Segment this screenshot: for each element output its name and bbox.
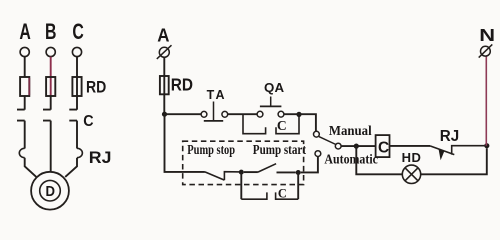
svg-text:A: A bbox=[157, 25, 169, 46]
wire coil to RJ contact bbox=[390, 145, 431, 147]
wire TA to QA bbox=[228, 113, 257, 115]
svg-text:C: C bbox=[83, 112, 93, 130]
svg-text:RJ: RJ bbox=[89, 147, 112, 167]
fuse RD phase A bbox=[20, 77, 29, 96]
svg-text:D: D bbox=[46, 183, 56, 199]
svg-text:HD: HD bbox=[402, 150, 422, 165]
fuse RD (control) bbox=[160, 76, 169, 94]
node: junction under RD bbox=[162, 112, 167, 117]
lamp HD bbox=[402, 165, 420, 183]
wire N line (red) bbox=[485, 56, 487, 146]
terminal C bbox=[72, 47, 81, 56]
svg-text:C: C bbox=[278, 186, 287, 200]
svg-text:QA: QA bbox=[264, 80, 285, 95]
coil C (contactor) bbox=[376, 135, 390, 157]
wire to pump start bbox=[244, 171, 258, 173]
wire phase C terminal to contact bbox=[76, 57, 78, 110]
wire junction to TA bbox=[165, 113, 202, 115]
wire QA junction to Manual contact bbox=[284, 114, 316, 131]
switch Pump start (open blade) bbox=[258, 164, 276, 172]
wire selector to coil C bbox=[341, 145, 376, 147]
pump stop fixed contact bbox=[224, 172, 241, 180]
terminal N: circle with slash bbox=[479, 44, 493, 57]
svg-text:C: C bbox=[378, 139, 389, 156]
holding contact C (parallel with QA) bbox=[243, 114, 299, 134]
wire A terminal to fuse bbox=[163, 57, 165, 112]
wire phase C heater to motor bbox=[65, 158, 77, 177]
node: pump start junction bbox=[296, 170, 301, 175]
terminal A (control): circle with slash bbox=[157, 45, 172, 59]
wire phase B terminal to fuse (red) bbox=[50, 57, 52, 96]
wire phase A contact to heater bbox=[24, 121, 26, 149]
terminal A bbox=[20, 47, 29, 56]
svg-text:Pump stop: Pump stop bbox=[187, 142, 235, 158]
selector common circle bbox=[335, 143, 341, 149]
selector blade bbox=[319, 137, 336, 145]
wire phase B contact to motor bbox=[50, 121, 52, 172]
wire lamp to N junction bbox=[421, 148, 487, 174]
svg-text:C: C bbox=[72, 21, 84, 45]
thermal element RJ phase A bbox=[19, 148, 24, 157]
contactor main contact C phase B bbox=[43, 110, 51, 121]
svg-text:RD: RD bbox=[171, 75, 193, 95]
wire Automatic contact to pump-start node bbox=[301, 157, 318, 173]
motor D outer circle bbox=[31, 172, 69, 210]
node: junction after QA bbox=[296, 112, 301, 117]
svg-text:A: A bbox=[19, 21, 31, 45]
node: pump stop junction bbox=[239, 170, 244, 175]
wire right leg of lower holding contact bbox=[297, 173, 299, 200]
svg-text:Automatic: Automatic bbox=[324, 151, 378, 167]
dashed enclosure (remote pump buttons) bbox=[183, 141, 304, 184]
node: junction on N line bbox=[484, 143, 489, 148]
contactor main contact C phase C bbox=[69, 110, 77, 121]
wire phase C contact to heater bbox=[76, 121, 78, 149]
thermal relay contact RJ (NC) bbox=[430, 146, 484, 161]
svg-text:TA: TA bbox=[207, 88, 227, 102]
motor D inner circle bbox=[40, 180, 61, 201]
wire phase A terminal to contact bbox=[24, 57, 26, 78]
holding contact C (lower, parallel with pump start) bbox=[241, 192, 298, 199]
contactor main contact C phase A bbox=[17, 110, 25, 121]
selector contact Manual bbox=[314, 131, 320, 137]
svg-text:N: N bbox=[479, 26, 495, 46]
svg-text:Pump start: Pump start bbox=[253, 142, 306, 157]
switch Pump stop (closed blade) bbox=[205, 172, 225, 180]
svg-text:Manual: Manual bbox=[329, 123, 372, 139]
wire phase A heater to motor bbox=[25, 158, 37, 177]
svg-text:RJ: RJ bbox=[440, 128, 459, 145]
wire phase B fuse to contact bbox=[50, 96, 52, 110]
wire pump start fixed side bbox=[277, 171, 296, 173]
fuse RD phase B bbox=[46, 77, 55, 96]
node: junction lamp tap bbox=[354, 144, 359, 149]
pushbutton QA (start, NO) bbox=[257, 97, 284, 118]
selector contact Automatic bbox=[315, 151, 321, 157]
wire left leg of lower holding contact bbox=[240, 172, 242, 199]
svg-text:B: B bbox=[45, 21, 56, 45]
pushbutton TA (stop, NC) bbox=[201, 102, 228, 121]
svg-text:C: C bbox=[277, 118, 287, 133]
fuse RD phase C bbox=[72, 77, 81, 96]
terminal B bbox=[46, 47, 55, 56]
wire lamp branch left leg bbox=[356, 146, 402, 174]
svg-text:RD: RD bbox=[86, 79, 106, 97]
wire junction to pump stop bbox=[165, 114, 205, 172]
thermal element RJ phase C bbox=[77, 148, 82, 157]
